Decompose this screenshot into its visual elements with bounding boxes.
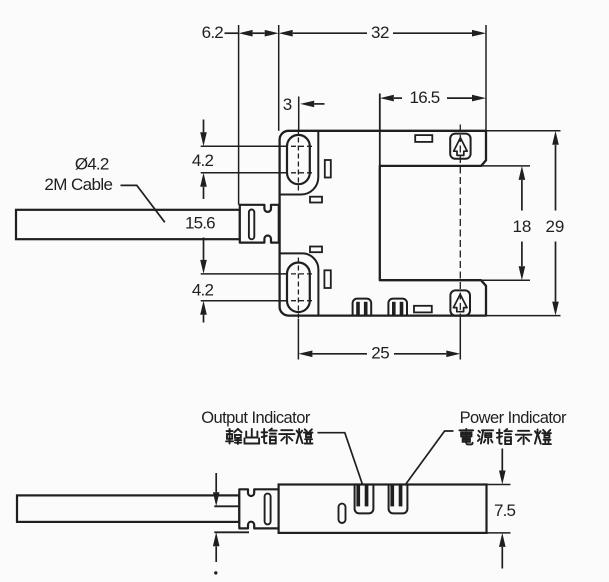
svg-text:4.2: 4.2 <box>192 151 214 170</box>
label Output Indicator CJK <box>226 429 241 444</box>
svg-text:Output Indicator: Output Indicator <box>201 409 311 427</box>
svg-text:Power Indicator: Power Indicator <box>460 409 567 427</box>
extension line body right edge up <box>485 25 487 131</box>
cable boot (top view) <box>240 205 279 243</box>
mounting boss top-left <box>280 131 319 195</box>
svg-text:15.6: 15.6 <box>185 214 215 233</box>
tab rect right of top hole <box>325 160 331 178</box>
beam mark square top <box>450 134 470 159</box>
hole centerline crosshairs <box>283 145 315 147</box>
boot latch slot (top view) <box>249 209 254 239</box>
extension line hole center (dim 3) <box>298 97 300 131</box>
dimension 29 arrow upper <box>552 131 559 145</box>
extension line body bottom right <box>486 315 561 317</box>
dimension 32 line right <box>393 32 472 34</box>
dimension 18 arrow upper <box>519 166 526 180</box>
cable (side view) <box>17 495 239 522</box>
terminal comb 1 outline <box>353 299 372 316</box>
extension line slot top face right <box>481 165 530 167</box>
terminal comb 2 slots <box>392 302 396 315</box>
sensor body outline (top view) <box>280 131 486 316</box>
dimension 3 arrow <box>300 101 314 108</box>
svg-text:7.5: 7.5 <box>494 501 516 520</box>
cable (top view) <box>16 210 240 239</box>
extension line body left edge <box>278 25 280 131</box>
extension line body top right <box>486 130 561 132</box>
svg-text:4.2: 4.2 <box>192 281 214 300</box>
cable leader line <box>121 185 165 222</box>
cable boot (side view) <box>239 489 278 528</box>
slot window bottom rect (lower arm) <box>414 306 432 313</box>
beam arrow glyph bottom <box>453 294 467 312</box>
svg-text:3: 3 <box>283 95 292 114</box>
dimension 29 arrow lower <box>555 242 557 302</box>
svg-text:29: 29 <box>545 217 564 236</box>
side cable arrow upper <box>215 473 217 492</box>
svg-text:18: 18 <box>512 217 531 236</box>
output leader line <box>318 433 363 485</box>
extension line centerline down <box>459 319 461 360</box>
svg-text:6.2: 6.2 <box>202 23 224 42</box>
extension line side bottom right <box>487 532 511 534</box>
dimension 25 line left <box>298 351 312 358</box>
beam mark square bottom <box>450 290 470 315</box>
extension line y=172.8 <box>201 172 287 174</box>
dimension 16.5 line right <box>447 97 472 99</box>
power indicator block outline <box>389 485 408 514</box>
dimension 4.2 top arrow upper <box>203 120 205 133</box>
boot latch slot (side view) <box>265 494 271 525</box>
output indicator slots <box>356 484 360 506</box>
extension line hole center down <box>297 319 299 360</box>
dimension 7.5 arrow upper <box>501 449 503 471</box>
side small oval detail <box>339 504 346 523</box>
mounting slot hole bottom <box>287 263 310 313</box>
extension line slot bottom face right <box>481 279 530 281</box>
extension line y=273.9 <box>201 273 287 275</box>
dimension 7.5 arrow lower <box>499 533 506 547</box>
dimension 15.6 arrow lower <box>203 238 205 260</box>
dimension 16.5 line left <box>380 95 394 102</box>
extension line slot left edge up <box>379 94 381 166</box>
tab rect below top boss <box>310 197 322 203</box>
beam arrow glyph top <box>454 138 468 156</box>
power leader line <box>406 431 454 485</box>
dimension 4.2 bottom arrow lower <box>200 301 207 315</box>
dimension 6.2 leader <box>225 32 239 34</box>
power indicator slots <box>390 484 394 506</box>
svg-text:32: 32 <box>371 23 389 42</box>
dimension 25 line right <box>394 353 446 355</box>
dimension 32 line left <box>279 30 293 37</box>
svg-text:25: 25 <box>371 344 389 363</box>
mounting slot hole top <box>287 135 310 184</box>
sensor body (side view) <box>279 485 487 533</box>
extension line boot left edge <box>238 25 240 205</box>
svg-text:16.5: 16.5 <box>410 88 440 107</box>
extension line y=146.3 <box>201 145 287 147</box>
dimension 18 arrow lower <box>521 242 523 267</box>
svg-text:Ø4.2: Ø4.2 <box>75 154 109 173</box>
slot window top rect (upper arm) <box>415 135 432 142</box>
tab rect above bottom boss <box>310 247 322 253</box>
svg-text:2M Cable: 2M Cable <box>44 175 112 194</box>
terminal comb 2 outline <box>388 299 407 316</box>
terminal comb 1 slots <box>356 302 360 315</box>
extension line side top right <box>487 484 511 486</box>
mounting boss bottom-left <box>280 253 319 315</box>
stray dot mark <box>214 571 217 574</box>
side cable arrow lower <box>213 532 220 546</box>
extension line y=300.7 <box>201 300 287 302</box>
tab rect right of bottom hole <box>324 270 330 288</box>
side dim ext line lower <box>214 531 249 533</box>
vertical centerline through beam axis <box>459 125 461 320</box>
side dim ext line upper <box>214 505 239 507</box>
output indicator block outline <box>355 485 374 514</box>
dimension 6.2 arrows <box>239 30 253 37</box>
dimension 15.6 arrow upper <box>200 173 207 187</box>
label Power Indicator CJK <box>459 429 473 444</box>
